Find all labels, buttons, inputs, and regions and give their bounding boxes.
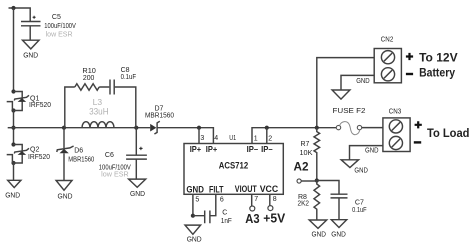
capacitor C7: [317, 181, 367, 220]
svg-text:33uH: 33uH: [89, 107, 109, 117]
node +5V terminal: [268, 206, 273, 211]
wire switch bus stub left: [8, 127, 14, 129]
svg-text:C5: C5: [52, 14, 61, 21]
node pin5 junction: [191, 214, 195, 218]
node top-left junction: [11, 6, 15, 10]
wire IC pin2 stub: [266, 128, 268, 144]
label - CN3: [414, 141, 421, 143]
svg-text:IP+: IP+: [206, 144, 218, 154]
svg-text:low ESR: low ESR: [46, 32, 73, 39]
fuse F2: [333, 108, 366, 135]
ground CN2: [332, 90, 350, 99]
svg-text:0.1uF: 0.1uF: [352, 207, 367, 214]
svg-text:C7: C7: [355, 199, 364, 206]
svg-text:2: 2: [268, 135, 272, 142]
svg-text:FILT: FILT: [209, 185, 224, 196]
inductor L3: [82, 97, 114, 128]
svg-text:D6: D6: [74, 147, 83, 154]
ground Q2 source: [5, 180, 21, 199]
svg-text:1: 1: [254, 135, 258, 142]
svg-text:low ESR: low ESR: [101, 171, 129, 178]
svg-text:IRF520: IRF520: [29, 102, 51, 109]
svg-text:A2: A2: [294, 160, 309, 174]
resistor R8: [298, 181, 320, 221]
op-amp U1 ACS712 box: [184, 135, 283, 196]
ground C7: [331, 220, 346, 239]
svg-text:C: C: [222, 209, 227, 216]
node fuse junction: [315, 126, 319, 130]
wire left rail lower: [13, 163, 15, 180]
ground CN3: [341, 160, 368, 175]
svg-text:CN3: CN3: [389, 109, 402, 116]
svg-text:MBR1560: MBR1560: [68, 156, 94, 163]
label + CN2: [406, 53, 413, 60]
transistor Q2: [7, 142, 50, 165]
svg-text:D7: D7: [155, 105, 164, 112]
diode D7: [145, 105, 174, 134]
wire CN2 gnd: [341, 75, 374, 90]
svg-text:1nF: 1nF: [221, 218, 232, 225]
svg-text:IP–: IP–: [247, 144, 259, 154]
wire fuse to CN3: [362, 127, 383, 129]
svg-text:GND: GND: [354, 166, 368, 175]
svg-text:GND: GND: [23, 50, 39, 59]
svg-text:FUSE F2: FUSE F2: [333, 108, 366, 115]
svg-text:10K: 10K: [300, 150, 313, 157]
svg-text:5: 5: [195, 197, 199, 204]
node switch bus left: [11, 126, 15, 130]
svg-text:IP–: IP–: [261, 144, 273, 154]
svg-text:ACS712: ACS712: [219, 161, 249, 172]
connector CN3: [383, 109, 410, 152]
svg-text:GND: GND: [58, 191, 74, 200]
svg-text:200: 200: [83, 75, 95, 82]
svg-text:C6: C6: [105, 152, 114, 159]
svg-text:To 12V: To 12V: [419, 51, 458, 65]
svg-text:Battery: Battery: [419, 66, 455, 80]
wire left rail upper: [13, 8, 15, 92]
wire CN2 feed: [317, 58, 374, 128]
node bus/L3-loop/D6 junction: [62, 126, 66, 130]
svg-text:8: 8: [273, 196, 277, 203]
svg-text:R7: R7: [301, 141, 310, 148]
ground IC pin5: [185, 225, 202, 244]
ground D6: [56, 181, 73, 201]
svg-text:4: 4: [214, 135, 218, 142]
resistor R10: [75, 68, 99, 90]
svg-text:GND: GND: [312, 230, 327, 239]
svg-text:A3: A3: [245, 212, 259, 226]
connector CN2: [374, 37, 401, 83]
ground R8: [309, 220, 327, 239]
svg-text:Q2: Q2: [30, 147, 39, 154]
svg-text:7: 7: [254, 196, 258, 203]
node IC pin3 junction: [197, 126, 201, 130]
wire IC pin5: [192, 194, 194, 215]
transistor Q1: [7, 89, 51, 112]
capacitor C6: [99, 128, 147, 179]
diode D6: [57, 128, 95, 181]
svg-text:GND: GND: [331, 230, 346, 239]
svg-text:VCC: VCC: [260, 184, 279, 195]
svg-text:0.1uF: 0.1uF: [121, 74, 137, 81]
wire top-left horizontal: [9, 8, 31, 21]
svg-text:To Load: To Load: [427, 126, 470, 140]
ground C5: [23, 40, 40, 59]
svg-text:2K2: 2K2: [298, 201, 310, 208]
svg-text:R10: R10: [82, 68, 96, 75]
svg-text:100uF/100V: 100uF/100V: [44, 23, 76, 30]
svg-text:GND: GND: [186, 185, 204, 196]
wire CN3 gnd: [350, 146, 383, 160]
resistor R7: [300, 128, 320, 181]
svg-text:6: 6: [220, 197, 224, 204]
wire IC pin7 viout: [251, 194, 253, 206]
svg-text:MBR1560: MBR1560: [145, 113, 174, 120]
svg-text:GND: GND: [130, 189, 146, 198]
node IC pin2 junction: [265, 126, 269, 130]
node A2 junction: [315, 178, 319, 182]
svg-text:CN2: CN2: [381, 37, 394, 44]
svg-text:GND: GND: [365, 145, 379, 154]
svg-text:3: 3: [200, 135, 204, 142]
label - CN2: [406, 73, 413, 75]
wire bus D7 to IC pin4: [157, 128, 213, 144]
svg-text:IRF520: IRF520: [28, 154, 50, 161]
svg-text:U1: U1: [229, 135, 236, 142]
wire switch-node bus: [14, 127, 151, 129]
svg-text:GND: GND: [356, 76, 370, 85]
wire IC pin3 stub: [198, 128, 200, 144]
node A2 terminal: [294, 160, 317, 184]
node bus/C6 junction: [134, 126, 138, 130]
svg-text:VIOUT: VIOUT: [235, 184, 257, 195]
capacitor C 1nF: [193, 194, 232, 225]
wire left rail mid: [13, 111, 15, 145]
wire IC pin1/pin2 bus to fuse junction: [252, 128, 336, 144]
svg-text:GND: GND: [187, 235, 203, 244]
capacitor C5: [21, 14, 76, 40]
label + CN3: [415, 121, 422, 128]
wire IC pin8 vcc: [269, 194, 271, 205]
svg-text:IP+: IP+: [190, 144, 202, 154]
svg-text:+5V: +5V: [263, 212, 286, 226]
node A3 terminal: [250, 206, 255, 211]
wire R10/C8 loop: [65, 87, 136, 128]
ground C6: [129, 179, 146, 198]
svg-text:GND: GND: [5, 190, 21, 199]
capacitor C8: [110, 67, 136, 95]
